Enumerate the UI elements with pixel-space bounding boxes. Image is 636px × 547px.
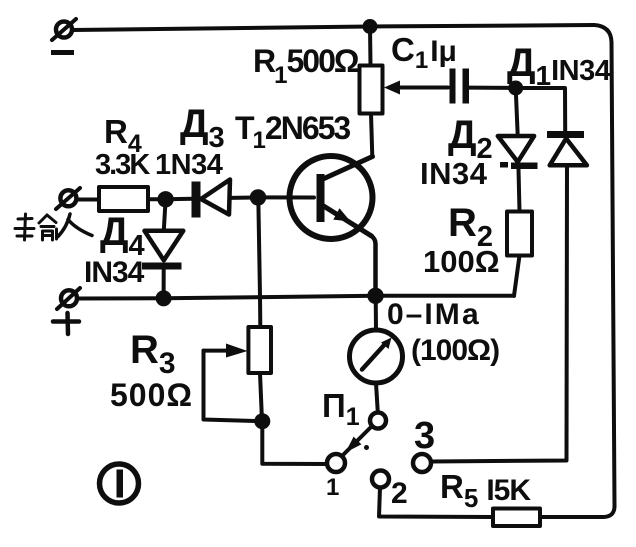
wire node B down to R3 (crosses bottom rail) [258, 197, 260, 327]
wire top rail [72, 25, 594, 30]
capacitor C1 plates [450, 69, 470, 104]
resistor R5 [493, 509, 540, 527]
svg-text:IN34: IN34 [84, 256, 145, 289]
svg-text:1: 1 [326, 474, 339, 501]
transistor T1 [290, 156, 373, 239]
chinese label input (ru) [58, 214, 92, 237]
wire D4 bottom lead [162, 270, 166, 299]
terminal minus (top-left) [52, 19, 76, 40]
wire input to R4 [77, 198, 99, 202]
wire emitter down to node C [372, 236, 376, 296]
svg-text:3.3K: 3.3K [95, 149, 150, 181]
meter M 0-1ma [350, 330, 403, 383]
wire C1 right lead [469, 86, 514, 90]
wire contact 2 to R5 [379, 488, 493, 518]
diode D1 [547, 131, 587, 165]
resistor R1 [360, 66, 383, 114]
capacitor C1 wiper arrow [384, 81, 448, 95]
resistor R2 [507, 212, 532, 256]
potentiometer R3 [248, 327, 271, 373]
resistor R4 [99, 187, 148, 211]
wire D4 top lead [164, 199, 166, 231]
svg-text:3: 3 [414, 415, 435, 457]
node junction C1/D1/D2 [508, 81, 523, 96]
svg-text:100Ω: 100Ω [423, 244, 500, 279]
switch contact 2 [372, 471, 389, 488]
switch P1 arm [343, 427, 372, 456]
switch contact 3 [413, 454, 431, 472]
svg-text:0–IМа: 0–IМа [387, 298, 481, 331]
node junction above R1 [363, 19, 378, 34]
wire meter top lead [374, 296, 378, 330]
svg-text:(100Ω): (100Ω) [411, 334, 499, 367]
wire D1 bottom to contact 3 [431, 165, 567, 461]
chinese label input (shu) [15, 214, 57, 240]
diode D3 [192, 180, 231, 218]
wire R2 bottom lead [514, 256, 520, 296]
wire meter bottom lead [376, 383, 378, 413]
node C (emitter junction) [367, 288, 383, 304]
wire node D to pole 1 [262, 421, 326, 464]
wire R3 bottom lead [260, 373, 262, 421]
svg-text:IN34: IN34 [420, 156, 488, 191]
svg-text:1N34: 1N34 [155, 149, 223, 181]
terminal input (mid-left) [56, 188, 80, 209]
switch pole 1 [327, 454, 345, 472]
wire D2 top lead [516, 88, 518, 133]
wire to diode D1 [516, 88, 566, 132]
diode D4 [142, 231, 183, 270]
wire bottom rail [78, 296, 515, 299]
minus sign label [51, 50, 74, 55]
node D (R3 bottom junction) [254, 413, 270, 429]
wire right edge loop [540, 25, 615, 517]
wire R4 to node A [148, 197, 166, 201]
switch P1 wiper terminal [370, 413, 386, 429]
node A [157, 191, 173, 207]
node D4/bottom rail [156, 290, 172, 306]
svg-text:2: 2 [391, 477, 408, 510]
terminal plus (bottom-left) [57, 288, 80, 309]
wire node A to D3 [166, 197, 193, 202]
plus sign label [53, 313, 79, 334]
wire D3 to node B [231, 195, 259, 200]
diode D2 [498, 136, 538, 169]
asterisk mark near D2 [500, 162, 508, 168]
R3 wiper arrow and wire [204, 344, 263, 422]
wire D2 to R2 [519, 169, 520, 212]
wire R1 bottom lead [371, 114, 372, 158]
wire R1 top lead [368, 27, 373, 66]
figure number circle 1 [100, 464, 139, 503]
wire node B to base [258, 195, 314, 199]
node B (base junction) [250, 189, 266, 205]
svg-text:500Ω: 500Ω [110, 377, 193, 413]
